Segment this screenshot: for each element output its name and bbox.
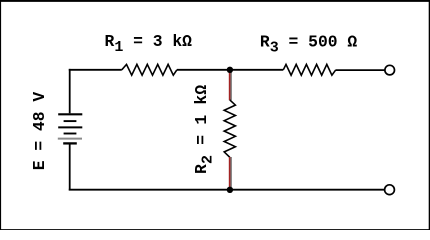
wire R2 bottom (red highlighted)	[230, 157, 232, 187]
resistor R2	[224, 100, 235, 157]
terminal bottom right	[385, 185, 395, 195]
wire top: R1 to R3	[177, 69, 283, 71]
resistor R1	[122, 64, 177, 75]
node junction top	[227, 67, 233, 73]
resistor R3	[283, 64, 336, 75]
wire top: battery to R1	[69, 69, 122, 71]
wire bottom	[69, 189, 385, 191]
terminal top right	[385, 65, 395, 75]
wire R2 top (red highlighted)	[230, 72, 232, 100]
wire left (battery branch)	[69, 69, 71, 113]
wire top: R3 to terminal	[336, 69, 385, 71]
battery E	[58, 114, 83, 143]
node junction bottom	[227, 187, 233, 193]
svg-text:E = 48 V: E = 48 V	[30, 92, 49, 171]
